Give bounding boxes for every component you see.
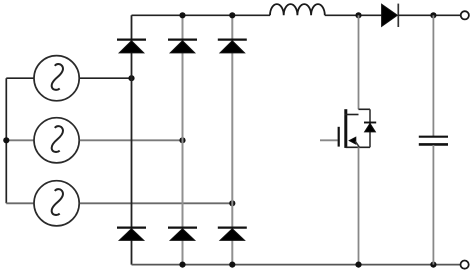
wire bottom bus	[132, 264, 461, 266]
diode D4	[117, 228, 146, 241]
node phase C	[229, 200, 235, 206]
wire phase C to bridge	[80, 202, 233, 204]
wire inductor to boost diode	[325, 14, 382, 16]
wire boost diode to output	[398, 14, 460, 16]
node bottom bus leg3	[229, 262, 235, 268]
diode D2	[218, 228, 247, 241]
wire bridge leg 2	[182, 15, 184, 264]
diode Q1 body	[364, 109, 376, 147]
wire bridge leg 3	[231, 15, 233, 264]
wire left rail	[5, 78, 7, 203]
node top bus leg2	[179, 12, 185, 18]
node top bus leg3	[229, 12, 235, 18]
node bottom bus leg2	[179, 262, 185, 268]
diode D7 boost	[382, 4, 399, 27]
wire phase A left stub	[6, 77, 33, 79]
diode D5	[218, 40, 247, 53]
node source junction	[355, 262, 361, 268]
wire phase C left stub	[6, 202, 33, 204]
wire bridge leg 1	[131, 15, 133, 264]
node drain tap	[355, 12, 361, 18]
node phase A	[128, 75, 134, 81]
wire phase A to bridge	[80, 77, 132, 79]
ac source V3	[34, 181, 79, 226]
diode D1	[117, 40, 146, 53]
capacitor C1	[419, 15, 448, 264]
terminal output minus	[461, 261, 469, 269]
wire mosfet source	[358, 147, 360, 264]
wire mosfet drain	[358, 15, 360, 109]
wire top bus	[132, 14, 271, 16]
terminal output plus	[461, 11, 469, 19]
diode D3	[168, 40, 197, 53]
ac source V1	[34, 56, 79, 101]
ac source V2	[34, 118, 79, 163]
node phase B	[179, 137, 185, 143]
wire phase B left stub	[6, 139, 33, 141]
node left rail junction	[3, 137, 9, 143]
transistor Q1	[320, 109, 370, 148]
node cap top	[430, 12, 436, 18]
wire phase B to bridge	[80, 139, 183, 141]
node cap bottom	[430, 262, 436, 268]
diode D6	[168, 228, 197, 241]
inductor L1	[270, 4, 325, 15]
